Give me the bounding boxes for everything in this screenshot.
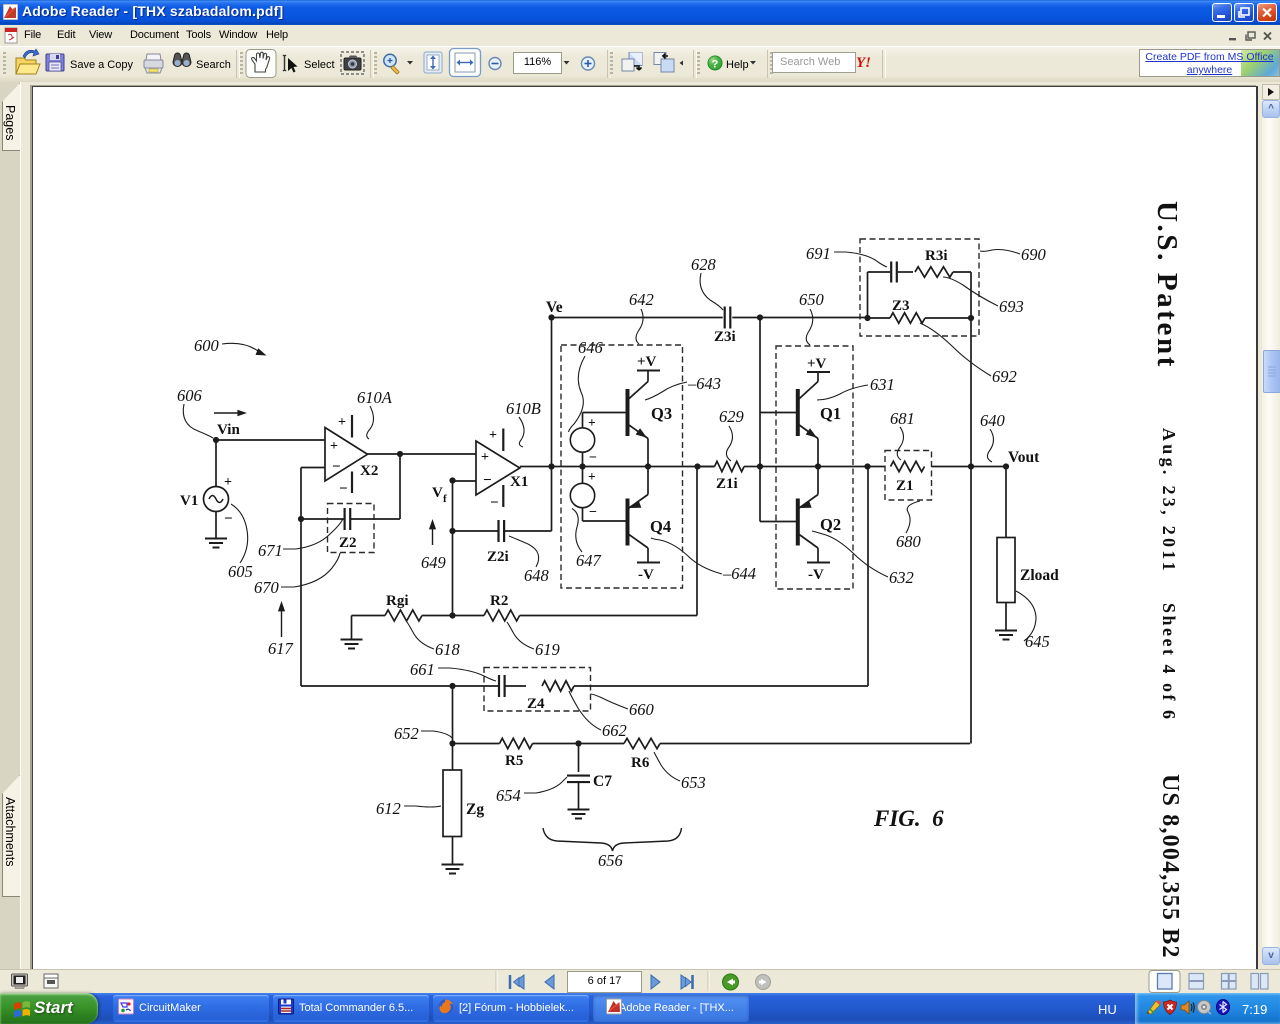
wire Rgi left — [352, 616, 386, 640]
numeral 692 — [920, 323, 1017, 386]
node Z3 right — [968, 315, 974, 321]
svg-text:Q3: Q3 — [651, 404, 672, 423]
numeral 680 — [896, 501, 922, 551]
ground C7 — [568, 810, 590, 819]
toolbar zoom out — [489, 58, 501, 70]
wire Z3 left vert — [867, 272, 869, 318]
-V rail Q2 — [807, 563, 830, 584]
svg-text:662: 662 — [602, 721, 627, 740]
wire R3i right vert — [970, 272, 972, 318]
svg-text:−: − — [332, 459, 341, 475]
toolbar help icon — [708, 56, 756, 71]
tray bluetooth icon — [1217, 1000, 1230, 1015]
capacitor Z3i — [714, 307, 736, 346]
wire Ve vertical — [551, 318, 553, 532]
svg-text:642: 642 — [629, 290, 654, 309]
statusbar back button — [723, 974, 739, 990]
wire R5-R6 — [533, 743, 625, 745]
numeral 691 — [806, 244, 887, 267]
toolbar next view icon — [654, 53, 683, 73]
statusbar layout single — [1149, 971, 1180, 993]
svg-text:Q4: Q4 — [650, 517, 671, 536]
tray shield icon — [1164, 1000, 1177, 1015]
capacitor 691 — [868, 262, 897, 283]
numeral 647 — [572, 509, 602, 571]
wire Q1Q2 row — [760, 466, 885, 468]
svg-text:647: 647 — [576, 551, 602, 570]
menu bar — [0, 25, 1280, 47]
svg-text:C7: C7 — [593, 773, 612, 790]
label Vout — [1008, 449, 1040, 466]
wire Z2 left — [301, 518, 344, 520]
node Z1i right — [757, 463, 763, 469]
node X1 out — [548, 463, 554, 469]
svg-text:Z1: Z1 — [896, 478, 914, 494]
numeral 640 — [980, 411, 1006, 462]
node Z3i — [757, 314, 763, 320]
wire Z1i left stub — [698, 466, 761, 468]
svg-text:671: 671 — [258, 541, 283, 560]
wire R2 right — [520, 467, 697, 616]
numeral 644 — [651, 538, 756, 583]
svg-text:654: 654 — [496, 786, 521, 805]
svg-text:617: 617 — [268, 639, 294, 658]
wire Vf vertical — [452, 481, 454, 616]
svg-text:+: + — [224, 475, 232, 490]
numeral 650 — [799, 290, 825, 345]
wire V1 bottom — [215, 512, 217, 539]
numeral 670 — [254, 553, 340, 597]
svg-text:f: f — [443, 493, 447, 505]
svg-text:610A: 610A — [357, 388, 393, 407]
node Vout left — [968, 463, 974, 469]
svg-text:Z3: Z3 — [892, 298, 910, 314]
wire Z2 right — [351, 454, 401, 519]
wire R6 right — [660, 743, 970, 745]
node X2 out — [397, 451, 403, 457]
svg-text:600: 600 — [194, 336, 220, 355]
svg-text:649: 649 — [421, 553, 446, 572]
wire X1out row — [520, 466, 715, 468]
svg-text:629: 629 — [719, 407, 744, 426]
svg-text:-V: -V — [808, 567, 824, 583]
wire C7 top — [578, 744, 580, 773]
svg-text:660: 660 — [629, 700, 655, 719]
svg-text:619: 619 — [535, 640, 560, 659]
node R5 left — [449, 740, 455, 746]
wire Zg bottom — [452, 837, 454, 865]
wire Ve row — [552, 317, 723, 319]
svg-text:–643: –643 — [687, 374, 721, 393]
wire Q2 base — [760, 521, 796, 523]
wire cs647 bottom — [583, 508, 628, 521]
wire Q1 base — [760, 412, 796, 414]
numeral 619 — [507, 622, 560, 659]
numeral 654 — [496, 777, 567, 805]
brace 656 — [543, 828, 682, 870]
node Z2i left — [449, 528, 455, 534]
impedance Zg — [443, 770, 484, 837]
wire Vf-X1inv — [453, 480, 477, 482]
toolbar zoom in — [582, 57, 595, 70]
svg-text:R6: R6 — [631, 755, 650, 771]
svg-text:−: − — [483, 473, 492, 489]
capacitor C7 — [567, 773, 612, 790]
statusbar last page button — [681, 975, 693, 989]
scrollbar — [1262, 84, 1280, 947]
svg-text:628: 628 — [691, 255, 717, 274]
wire Z3i right — [732, 317, 867, 319]
transistor Q3 — [628, 371, 673, 467]
wire Z2i — [453, 530, 499, 532]
node currentsrc — [579, 463, 585, 469]
svg-text:Q2: Q2 — [820, 515, 841, 534]
numeral 653 — [654, 752, 706, 792]
svg-text:V: V — [432, 485, 443, 501]
svg-text:656: 656 — [598, 851, 624, 870]
toolbar hand button — [246, 50, 276, 78]
toolbar save icon — [46, 54, 64, 71]
svg-text:Rgi: Rgi — [386, 593, 409, 609]
wire X2 inv — [301, 468, 325, 520]
tray pencil icon — [1147, 1000, 1161, 1014]
svg-text:670: 670 — [254, 578, 280, 597]
svg-text:−: − — [589, 505, 597, 520]
node Q1Q2 junction — [815, 463, 821, 469]
tray volume icon — [1198, 1001, 1212, 1015]
svg-text:Q1: Q1 — [820, 404, 841, 423]
toolbar fit width button — [450, 49, 481, 77]
svg-text:−: − — [339, 481, 348, 497]
wire Z3i down — [759, 318, 761, 522]
numeral 606 — [177, 386, 213, 438]
start flag — [14, 1001, 30, 1018]
wire Rgi-R2 — [422, 615, 484, 617]
impedance Z1 — [885, 451, 932, 501]
numeral 690 — [980, 245, 1047, 264]
numeral 661 — [410, 660, 496, 681]
numeral 643 — [645, 374, 721, 400]
toolbar prev view icon — [622, 53, 642, 72]
numeral 600 — [194, 336, 268, 359]
toolbar select icon — [283, 55, 298, 73]
toolbar zoom combo arrow — [564, 61, 570, 65]
op-amp X1 — [476, 428, 528, 511]
svg-text:653: 653 — [681, 773, 706, 792]
wire Z2node down — [300, 519, 302, 686]
svg-text:661: 661 — [410, 660, 435, 679]
svg-text:+: + — [588, 415, 596, 430]
svg-text:R5: R5 — [505, 753, 523, 769]
numeral 628 — [691, 255, 723, 310]
numeral 642 — [629, 290, 654, 344]
dashed box 650 — [776, 346, 853, 589]
label FIG. 6 — [873, 806, 944, 831]
wire Zload bottom — [1005, 603, 1007, 631]
numeral 660 — [591, 694, 655, 719]
statusbar layout facing — [1251, 974, 1268, 990]
dashed box 690 — [860, 239, 979, 336]
svg-text:−: − — [224, 511, 233, 527]
numeral 605 — [228, 504, 253, 581]
taskbar — [0, 993, 1280, 1024]
svg-text:–644: –644 — [722, 564, 756, 583]
node Z3 left — [864, 315, 870, 321]
transistor Q4 — [628, 467, 672, 563]
resistor R6 — [624, 738, 660, 771]
numeral 610B — [506, 399, 541, 447]
svg-text:632: 632 — [889, 568, 914, 587]
svg-text:Vin: Vin — [217, 422, 240, 438]
toolbar search icon — [173, 53, 191, 66]
svg-text:R3i: R3i — [925, 248, 948, 264]
svg-text:645: 645 — [1025, 632, 1050, 651]
svg-text:Z4: Z4 — [527, 696, 545, 712]
svg-text:+V: +V — [637, 354, 657, 370]
svg-text:−: − — [490, 495, 499, 511]
svg-text:+: + — [330, 439, 338, 454]
svg-text:+: + — [588, 469, 596, 484]
ground Zg — [442, 865, 464, 874]
svg-text:618: 618 — [435, 640, 461, 659]
ac source V1 — [180, 475, 233, 527]
wire cs646 top — [583, 413, 628, 429]
transistor Q1 — [798, 373, 841, 467]
resistor R5 — [453, 738, 533, 769]
label Ve — [546, 299, 563, 316]
svg-text:V1: V1 — [180, 493, 198, 509]
numeral 652 — [394, 724, 452, 743]
resistor Z3 — [868, 298, 972, 323]
numeral 645 — [1016, 591, 1050, 651]
numeral 629 — [719, 407, 744, 461]
capacitor Z2i — [487, 520, 509, 565]
toolbar zoom tool — [384, 54, 413, 74]
svg-text:691: 691 — [806, 244, 831, 263]
numeral 648 — [509, 536, 550, 585]
node Z2 left — [298, 516, 304, 522]
toolbar — [0, 46, 1280, 83]
svg-text:606: 606 — [177, 386, 203, 405]
numeral 646 — [569, 338, 604, 432]
svg-text:690: 690 — [1021, 245, 1047, 264]
statusbar separators — [496, 971, 709, 991]
wire X2 out — [368, 453, 477, 455]
-V rail Q4 — [637, 563, 660, 584]
label Vf — [432, 485, 447, 505]
svg-text:Z2: Z2 — [339, 535, 357, 551]
svg-text:Vout: Vout — [1008, 449, 1040, 466]
dashed box 642 — [561, 345, 683, 588]
statusbar next page button — [651, 975, 660, 989]
toolbar snapshot icon — [341, 52, 364, 74]
svg-text:652: 652 — [394, 724, 419, 743]
svg-text:X1: X1 — [510, 474, 528, 490]
wire C7 bottom — [578, 782, 580, 809]
wire Vout down — [1005, 467, 1007, 538]
svg-text:R2: R2 — [490, 593, 508, 609]
toolbar open icon — [16, 49, 40, 74]
node Vf top — [449, 477, 455, 483]
node Z4 — [449, 683, 455, 689]
wire Z2i right — [505, 530, 552, 532]
svg-text:Zg: Zg — [466, 801, 484, 818]
svg-text:650: 650 — [799, 290, 825, 309]
current source 646 — [570, 415, 597, 466]
svg-text:640: 640 — [980, 411, 1006, 430]
node Vout — [1003, 463, 1009, 469]
task icon firefox — [439, 999, 453, 1013]
node R2 top — [694, 463, 700, 469]
node Rgi-R2 — [449, 612, 455, 618]
svg-text:+V: +V — [807, 356, 827, 372]
numeral 671 — [258, 519, 343, 560]
statusbar page icon — [44, 974, 58, 988]
task icon adobe — [607, 999, 622, 1014]
statusbar prev page button — [545, 975, 554, 989]
resistor Rgi — [385, 593, 422, 621]
svg-text:−: − — [589, 451, 597, 466]
transistor Q2 — [798, 467, 841, 563]
wire Zg top — [452, 744, 454, 771]
statusbar first/last extra triangles — [514, 978, 692, 987]
toolbar fit page icon — [424, 52, 442, 73]
impedance Z4 — [453, 668, 869, 713]
wire Z4 row left — [301, 685, 453, 687]
current source 647 — [570, 469, 597, 520]
node Ve — [548, 314, 554, 320]
op-amp X2 — [325, 415, 378, 497]
numeral 632 — [812, 531, 914, 587]
numeral 610A — [357, 388, 393, 439]
status bar — [0, 969, 1280, 994]
wire V1 top — [215, 440, 217, 487]
numeral 631 — [817, 375, 895, 400]
statusbar forward button — [756, 975, 771, 990]
svg-text:605: 605 — [228, 562, 253, 581]
title bar — [0, 0, 1280, 25]
svg-text:FIG. 6: FIG. 6 — [873, 806, 944, 831]
svg-text:+: + — [338, 415, 346, 430]
resistor R3i — [898, 248, 971, 277]
ground Zload — [995, 631, 1017, 640]
node C7 top — [575, 740, 581, 746]
wire Vf down2 — [452, 686, 454, 744]
numeral 681 — [890, 409, 915, 460]
node Z4 top — [864, 463, 870, 469]
svg-text:+: + — [489, 428, 497, 443]
numeral 618 — [407, 622, 461, 659]
svg-text:Z3i: Z3i — [714, 329, 736, 345]
statusbar monitor icon — [12, 974, 28, 989]
numeral 662 — [569, 691, 627, 740]
svg-text:Z2i: Z2i — [487, 549, 509, 565]
node Q3Q4 junction — [645, 463, 651, 469]
svg-text:+: + — [481, 450, 489, 465]
wire Vin-X2 — [216, 439, 325, 441]
wire Z3right down — [970, 318, 972, 744]
+V rail Q3 — [637, 354, 660, 371]
numeral 617 — [268, 601, 294, 658]
svg-text:681: 681 — [890, 409, 915, 428]
svg-text:680: 680 — [896, 532, 922, 551]
wire cs mid — [582, 452, 584, 483]
svg-text:648: 648 — [524, 566, 550, 585]
svg-text:631: 631 — [870, 375, 895, 394]
resistor R2 — [484, 593, 520, 621]
svg-text:Ve: Ve — [546, 299, 563, 316]
svg-text:692: 692 — [992, 367, 1017, 386]
patent margin text — [1150, 201, 1183, 369]
numeral 612 — [376, 799, 441, 818]
impedance Zload — [997, 538, 1059, 603]
svg-text:612: 612 — [376, 799, 401, 818]
tray speaker icon — [1181, 1001, 1194, 1014]
statusbar layout continuous — [1189, 974, 1204, 990]
ground V1 — [205, 539, 227, 548]
wire Z4 right up — [867, 467, 869, 687]
svg-text:X2: X2 — [360, 463, 378, 479]
numeral 649 — [421, 519, 446, 572]
wire Z1 right — [932, 466, 1007, 468]
+V rail Q1 — [807, 356, 830, 372]
svg-text:610B: 610B — [506, 399, 541, 418]
ground Rgi — [341, 640, 363, 649]
impedance Z2 — [328, 504, 375, 553]
statusbar first page button — [510, 975, 524, 989]
svg-text:693: 693 — [999, 297, 1024, 316]
numeral 693 — [943, 277, 1024, 316]
svg-text:Zload: Zload — [1020, 567, 1059, 584]
svg-text:Z1i: Z1i — [716, 476, 738, 492]
node Vin — [213, 422, 241, 443]
svg-text:-V: -V — [638, 567, 654, 583]
task icon total commander — [279, 999, 294, 1014]
resistor Z1i — [715, 461, 745, 492]
wire Vin arrow — [214, 410, 247, 417]
toolbar print icon — [144, 54, 163, 73]
statusbar layout facing continuous — [1222, 974, 1237, 990]
task icon circuitmaker — [119, 999, 134, 1014]
svg-text:646: 646 — [578, 338, 604, 357]
